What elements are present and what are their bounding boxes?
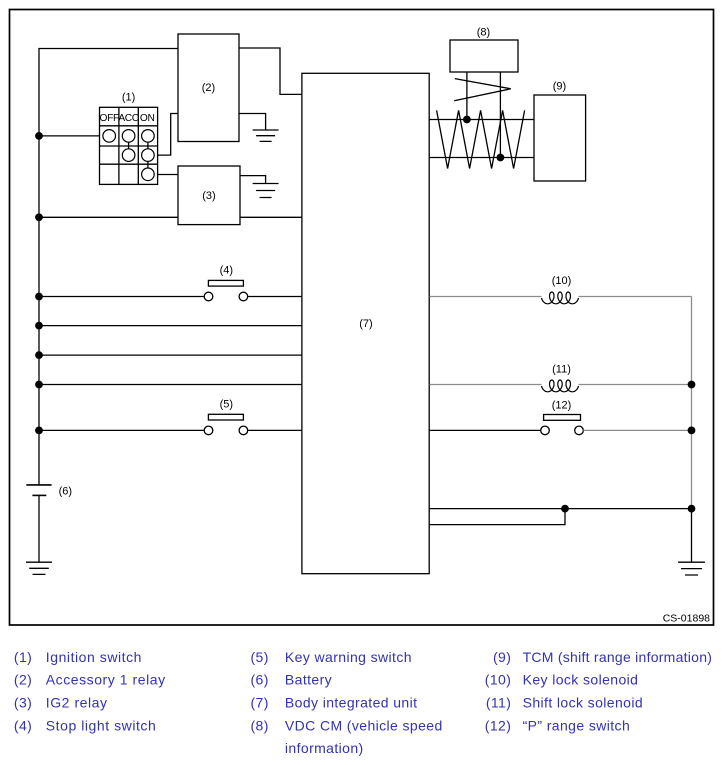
svg-text:Ignition switch: Ignition switch — [46, 649, 142, 665]
svg-text:CS-01898: CS-01898 — [663, 613, 710, 625]
svg-text:(9): (9) — [493, 649, 511, 665]
svg-text:information): information) — [285, 740, 364, 756]
svg-text:(10): (10) — [485, 672, 512, 688]
svg-text:(7): (7) — [251, 695, 269, 711]
svg-text:(3): (3) — [202, 190, 215, 202]
svg-text:(6): (6) — [251, 672, 269, 688]
svg-text:(9): (9) — [553, 81, 566, 93]
svg-text:(11): (11) — [552, 364, 571, 376]
svg-text:ON: ON — [140, 113, 155, 124]
svg-text:Battery: Battery — [285, 672, 332, 688]
svg-text:(6): (6) — [59, 486, 72, 498]
svg-text:Shift lock solenoid: Shift lock solenoid — [523, 695, 643, 711]
svg-text:(4): (4) — [220, 265, 233, 277]
svg-text:(11): (11) — [486, 695, 511, 711]
svg-text:TCM (shift range information): TCM (shift range information) — [523, 649, 713, 665]
svg-text:(8): (8) — [477, 27, 490, 39]
svg-text:Key warning switch: Key warning switch — [285, 649, 412, 665]
svg-text:(1): (1) — [122, 92, 135, 104]
svg-text:(2): (2) — [202, 82, 215, 94]
svg-text:Key lock solenoid: Key lock solenoid — [523, 672, 639, 688]
svg-text:(5): (5) — [220, 399, 233, 411]
svg-text:“P” range switch: “P” range switch — [523, 718, 631, 734]
svg-text:OFF: OFF — [100, 113, 119, 124]
svg-text:(7): (7) — [359, 318, 372, 330]
svg-text:IG2 relay: IG2 relay — [46, 695, 108, 711]
svg-text:Accessory 1 relay: Accessory 1 relay — [46, 672, 166, 688]
svg-text:(2): (2) — [14, 672, 32, 688]
svg-text:(1): (1) — [14, 649, 32, 665]
svg-text:VDC CM (vehicle speed: VDC CM (vehicle speed — [285, 718, 443, 734]
svg-text:(8): (8) — [251, 718, 269, 734]
svg-text:(3): (3) — [14, 695, 32, 711]
svg-text:(12): (12) — [552, 400, 572, 412]
svg-text:(4): (4) — [14, 718, 32, 734]
svg-text:Body integrated unit: Body integrated unit — [285, 695, 418, 711]
svg-text:(12): (12) — [485, 718, 512, 734]
svg-text:(10): (10) — [552, 275, 572, 287]
svg-text:Stop light switch: Stop light switch — [46, 718, 157, 734]
svg-text:ACC: ACC — [118, 113, 138, 124]
svg-text:(5): (5) — [251, 649, 269, 665]
